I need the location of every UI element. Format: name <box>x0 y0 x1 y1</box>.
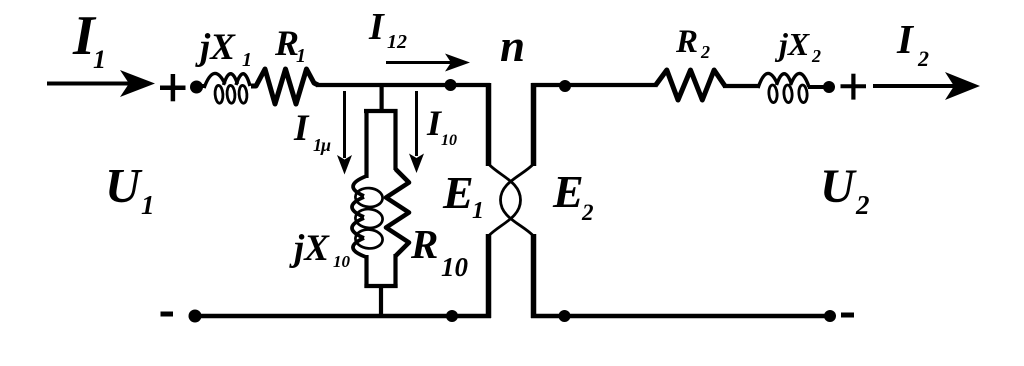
plus terminal left <box>160 74 186 101</box>
svg-text:U: U <box>820 160 857 213</box>
svg-text:2: 2 <box>917 46 929 71</box>
label U2 <box>820 160 870 220</box>
svg-text:12: 12 <box>387 31 407 53</box>
node dot bottom mid-right <box>559 310 571 322</box>
svg-text:10: 10 <box>441 132 457 149</box>
arrow I10 <box>409 91 424 173</box>
label E1 <box>442 167 484 224</box>
shunt bottom bar <box>364 284 397 288</box>
svg-text:R: R <box>410 221 438 267</box>
svg-text:n: n <box>500 21 525 71</box>
svg-text:2: 2 <box>581 200 594 225</box>
shunt top bar <box>364 109 398 113</box>
svg-text:2: 2 <box>811 46 821 66</box>
svg-text:jX: jX <box>774 26 810 62</box>
svg-text:E: E <box>552 166 584 217</box>
shunt right conductor <box>393 109 397 170</box>
bottom wire right <box>531 314 830 318</box>
wire dot to coil <box>196 84 206 88</box>
svg-text:1: 1 <box>296 45 306 67</box>
svg-text:U: U <box>105 158 143 213</box>
resistor R1 <box>251 69 318 104</box>
svg-text:I: I <box>896 16 915 62</box>
bottom wire left <box>196 314 491 318</box>
label R1 <box>274 23 306 67</box>
svg-text:1: 1 <box>472 198 484 224</box>
svg-text:E: E <box>442 167 474 218</box>
svg-text:1: 1 <box>242 49 252 71</box>
node dot top mid <box>445 79 457 91</box>
shunt branch stub top <box>380 85 384 111</box>
svg-text:10: 10 <box>441 252 469 282</box>
label I10 <box>426 103 457 149</box>
svg-text:2: 2 <box>700 42 710 62</box>
label I12 <box>368 6 407 53</box>
svg-text:I: I <box>293 108 310 149</box>
minus terminal bottom-right <box>841 313 854 318</box>
shunt left conductor lower <box>364 255 368 288</box>
svg-text:10: 10 <box>333 252 351 271</box>
arrow I1mu <box>337 91 352 175</box>
minus terminal bottom-left <box>161 312 174 317</box>
resistor R10 <box>386 169 409 256</box>
wire jX2 to dot <box>808 85 825 89</box>
svg-text:1: 1 <box>93 45 106 74</box>
transformer secondary winding <box>501 83 534 318</box>
label jX1 <box>195 27 252 71</box>
label R10 <box>410 221 469 282</box>
label R2 <box>675 24 710 62</box>
shunt left conductor <box>364 109 368 178</box>
label I1mu <box>293 108 331 155</box>
shunt bottom stub <box>379 286 383 316</box>
svg-text:jX: jX <box>289 228 330 269</box>
label I2 <box>896 16 929 71</box>
label I1 <box>72 5 106 74</box>
svg-text:R: R <box>675 24 698 60</box>
svg-text:jX: jX <box>195 27 236 68</box>
wire R2 to jX2 <box>723 84 760 88</box>
arrow I12 <box>386 54 470 72</box>
shunt right conductor lower <box>393 254 397 288</box>
transformer primary winding <box>489 83 521 318</box>
resistor R2 <box>655 70 725 100</box>
arrow I1 <box>47 70 155 97</box>
label jX2 <box>774 26 821 66</box>
label U1 <box>105 158 155 220</box>
svg-text:μ: μ <box>320 135 331 155</box>
node dot top-left <box>190 81 203 94</box>
label E2 <box>552 166 594 225</box>
node dot top right-2 <box>823 81 835 93</box>
plus terminal right <box>841 74 867 100</box>
arrow I2 <box>873 72 980 100</box>
svg-text:1: 1 <box>141 190 155 220</box>
node dot top right-1 <box>559 80 571 92</box>
node dot bottom-left <box>189 310 202 323</box>
node dot bottom-right <box>824 310 836 322</box>
svg-text:I: I <box>368 6 385 48</box>
svg-text:2: 2 <box>855 190 870 220</box>
label jX10 <box>289 228 351 271</box>
inductor jX10 <box>352 176 383 257</box>
wire transformer to R2 <box>532 83 657 87</box>
inductor jX1 <box>204 73 250 103</box>
node dot bottom mid-left <box>446 310 458 322</box>
wire R1 to transformer <box>316 83 490 87</box>
inductor jX2 <box>758 73 809 102</box>
